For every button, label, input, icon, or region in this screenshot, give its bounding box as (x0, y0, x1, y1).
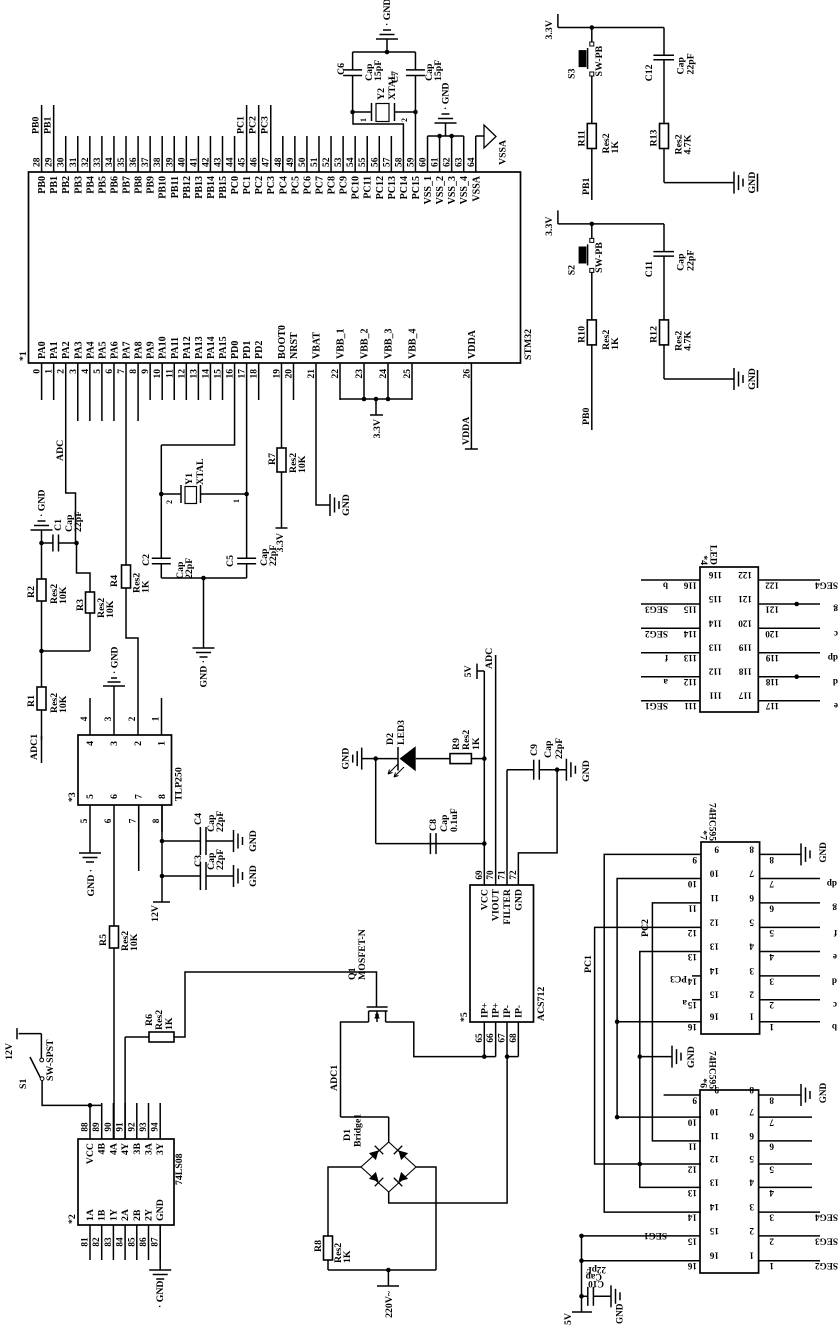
svg-text:2: 2 (127, 716, 137, 721)
svg-text:IP+: IP+ (491, 1002, 502, 1018)
wire TLP pin7 stub (138, 805, 140, 871)
svg-text:16: 16 (687, 1022, 697, 1032)
svg-text:5: 5 (79, 818, 89, 823)
ground at C4 (233, 840, 235, 842)
svg-text:PB3: PB3 (73, 176, 84, 194)
svg-text:118: 118 (765, 677, 779, 687)
svg-text:PC4: PC4 (278, 176, 289, 194)
svg-text:PC2: PC2 (254, 176, 265, 194)
svg-text:GND: GND (341, 494, 352, 516)
svg-text:VSS_1: VSS_1 (423, 176, 434, 204)
power port 3.3V at VBB (375, 399, 377, 415)
svg-text:49: 49 (286, 157, 296, 167)
svg-text:· GND: · GND (110, 647, 121, 675)
STM32 left pin 4 PA4 (89, 363, 91, 421)
svg-text:22pF: 22pF (686, 53, 697, 74)
svg-text:Y2: Y2 (376, 88, 387, 100)
ground at R13 (664, 182, 734, 184)
svg-text:1K: 1K (471, 737, 482, 750)
display top pin 113 net f (641, 652, 700, 654)
svg-text:29: 29 (45, 157, 55, 167)
svg-text:11: 11 (688, 903, 697, 913)
svg-text:72: 72 (508, 870, 518, 880)
svg-text:7: 7 (117, 369, 127, 374)
svg-text:VBB_4: VBB_4 (408, 328, 419, 359)
svg-text:PB15: PB15 (218, 176, 229, 199)
svg-text:61: 61 (431, 157, 441, 167)
wire ACS IP- tie (507, 1056, 518, 1058)
svg-text:R4: R4 (109, 575, 120, 587)
svg-text:IP-: IP- (502, 1005, 513, 1018)
svg-text:6: 6 (105, 369, 115, 374)
svg-text:R5: R5 (98, 934, 109, 946)
svg-text:14: 14 (687, 976, 697, 986)
U7 bottom pin 3 wire (760, 975, 820, 977)
LED branch: ground (362, 758, 376, 760)
svg-text:VSSA: VSSA (471, 175, 482, 201)
svg-text:32: 32 (81, 157, 91, 167)
display bottom pin 118 net d (758, 676, 820, 678)
bus wire SEG1 row (581, 1236, 583, 1296)
ACS712 left pin 65 IP+ (483, 1022, 485, 1057)
svg-text:81: 81 (80, 1237, 90, 1247)
STM32 right pin 60 VSS_1 (427, 136, 429, 172)
TLP250 pin 8 (161, 805, 163, 832)
svg-text:PD1: PD1 (242, 341, 253, 359)
svg-text:4: 4 (85, 741, 96, 746)
svg-text:C8: C8 (428, 819, 439, 831)
svg-text:b: b (663, 581, 668, 591)
svg-text:42: 42 (201, 157, 211, 167)
svg-text:114: 114 (683, 629, 697, 639)
svg-text:C9: C9 (529, 744, 540, 756)
svg-text:PC15: PC15 (411, 176, 422, 199)
ground at 74LS08 pin87 (159, 1225, 161, 1270)
svg-text:VSS_2: VSS_2 (435, 176, 446, 204)
svg-text:5: 5 (93, 369, 103, 374)
bus wire row B (604, 854, 701, 1212)
svg-text:VIOUT: VIOUT (491, 889, 502, 922)
ground at bus row D (640, 1056, 672, 1058)
resistor R13 (663, 60, 665, 124)
crystal Y1 circuit (160, 563, 162, 578)
svg-text:PB11: PB11 (170, 176, 181, 198)
svg-text:2: 2 (133, 741, 144, 746)
svg-text:116: 116 (708, 570, 722, 580)
svg-text:3.3V: 3.3V (275, 533, 286, 552)
ground at Y2 (385, 50, 390, 55)
svg-text:14: 14 (687, 1213, 697, 1223)
svg-text:85: 85 (126, 1237, 136, 1247)
svg-text:220V~: 220V~ (384, 1290, 395, 1318)
U6 bottom pin 6 wire (759, 1140, 812, 1142)
svg-text:3: 3 (103, 716, 113, 721)
svg-text:6: 6 (749, 893, 754, 903)
U6 bottom pin 1 wire (759, 1260, 820, 1262)
IC U5 ACS712 body (470, 885, 534, 1022)
svg-text:PB12: PB12 (182, 176, 193, 199)
STM32 left pin 5 PA5 (101, 363, 103, 421)
svg-text:93: 93 (138, 1122, 148, 1132)
STM32 left pin 20 NRST (293, 363, 295, 400)
svg-text:22pF: 22pF (215, 849, 226, 870)
STM32 right pin 42 PB14 (209, 136, 211, 172)
svg-text:C12: C12 (644, 64, 655, 81)
svg-text:ADC: ADC (55, 440, 66, 461)
74LS08 left pin 84 2A (124, 1225, 126, 1260)
svg-text:121: 121 (738, 594, 752, 604)
net label PC2 (258, 105, 260, 136)
svg-text:GND: GND (155, 1199, 166, 1221)
STM32 left pin 8 PA8 (137, 363, 139, 421)
svg-text:PC11: PC11 (363, 176, 374, 199)
svg-text:33: 33 (93, 157, 103, 167)
74LS08 left pin 86 2Y (148, 1225, 150, 1260)
display top pin 112 net a (641, 676, 700, 678)
STM32 right pin 53 PC9 (342, 136, 344, 172)
svg-text:87: 87 (150, 1237, 160, 1247)
svg-text:S1: S1 (18, 1079, 29, 1089)
STM32 left pin 10 PA10 (161, 363, 163, 400)
TLP250 pin 4 (89, 698, 91, 735)
svg-text:*4: *4 (698, 555, 709, 565)
svg-text:1B: 1B (97, 1209, 108, 1221)
bus wire PC1 row (595, 927, 701, 1164)
svg-text:R2: R2 (26, 586, 37, 598)
svg-text:12: 12 (177, 369, 187, 379)
svg-text:IP-: IP- (513, 1005, 524, 1018)
STM32 left pin 6 PA6 (113, 363, 115, 421)
svg-text:PC2: PC2 (640, 919, 651, 937)
svg-text:91: 91 (115, 1122, 125, 1132)
svg-text:4A: 4A (108, 1143, 119, 1155)
STM32 right pin 48 PC4 (282, 136, 284, 172)
svg-text:TLP250: TLP250 (174, 767, 185, 801)
svg-text:84: 84 (115, 1237, 125, 1247)
svg-text:11: 11 (710, 1131, 719, 1141)
power port 3.3V S3 (557, 14, 559, 28)
svg-text:82: 82 (91, 1237, 101, 1247)
resistor R6 1K from 4Y to gate (124, 1037, 126, 1139)
svg-text:89: 89 (91, 1122, 101, 1132)
svg-text:8: 8 (157, 794, 168, 799)
svg-text:SEG1: SEG1 (644, 1231, 667, 1241)
svg-text:GND: GND (248, 865, 259, 887)
STM32 right pin 30 PB2 (65, 136, 67, 172)
svg-text:1: 1 (359, 118, 368, 122)
svg-text:11: 11 (688, 1141, 697, 1151)
svg-text:PA1: PA1 (49, 341, 60, 359)
bus wire row C (617, 879, 701, 1118)
switch blade S1 (30, 1057, 40, 1078)
svg-text:92: 92 (126, 1122, 136, 1132)
svg-text:PB1: PB1 (43, 116, 54, 134)
ACS712 left pin 68 IP- (517, 1022, 519, 1057)
STM32 left pin 13 PA13 (197, 363, 199, 400)
STM32 left pin 2 PA2 (65, 363, 67, 400)
svg-text:1K: 1K (164, 1017, 175, 1030)
svg-text:SW-PB: SW-PB (594, 45, 605, 76)
svg-text:3.3V: 3.3V (544, 217, 555, 236)
svg-text:44: 44 (226, 157, 236, 167)
STM32 left pin 25 VBB_4 (411, 363, 413, 400)
svg-text:12V: 12V (150, 905, 161, 922)
wire VBAT to ground (316, 400, 330, 505)
svg-text:PC8: PC8 (327, 176, 338, 194)
svg-text:10K: 10K (297, 455, 308, 473)
svg-text:PC0: PC0 (230, 176, 241, 194)
svg-text:3: 3 (109, 741, 120, 746)
net label PB0 (41, 105, 43, 136)
svg-text:10K: 10K (129, 933, 140, 951)
STM32 left pin 11 PA11 (173, 363, 175, 400)
U7 bottom pin 4 wire (760, 951, 820, 953)
svg-text:SEG4: SEG4 (815, 581, 838, 591)
svg-text:R7: R7 (267, 453, 278, 465)
svg-text:GND: GND (581, 760, 592, 782)
svg-text:GND: GND (747, 368, 758, 390)
ground at R12 (664, 378, 734, 380)
svg-text:122: 122 (738, 570, 752, 580)
svg-text:15: 15 (709, 1226, 719, 1236)
svg-text:4: 4 (81, 369, 91, 374)
svg-text:PB4: PB4 (85, 176, 96, 194)
svg-text:d: d (833, 677, 838, 687)
svg-text:Cap: Cap (543, 740, 554, 758)
svg-text:SEG2: SEG2 (645, 629, 668, 639)
svg-text:PC5: PC5 (290, 176, 301, 194)
svg-text:GND: GND (818, 1082, 828, 1103)
svg-text:36: 36 (129, 157, 139, 167)
svg-text:VCC: VCC (479, 889, 490, 910)
svg-text:PB1: PB1 (581, 177, 592, 195)
net label PC3 (270, 105, 272, 136)
svg-text:74LS08: 74LS08 (174, 1153, 185, 1185)
display bottom pin 119 net dp (758, 652, 820, 654)
capacitor C4 22pF (162, 840, 201, 842)
svg-text:24: 24 (379, 369, 389, 379)
IC U6 74HC595 body (700, 1090, 759, 1273)
STM32 right pin 37 PB9 (149, 136, 151, 172)
svg-text:1: 1 (769, 1261, 774, 1271)
STM32 left pin 26 VDDA (470, 363, 472, 400)
svg-text:BOOT0: BOOT0 (277, 325, 288, 359)
IC U2 74LS08 body (78, 1139, 174, 1225)
STM32 left pin 16 PD0 (234, 363, 236, 400)
resistor R7 10K on BOOT0 (281, 400, 283, 448)
svg-text:VBAT: VBAT (312, 332, 323, 359)
svg-text:113: 113 (683, 653, 697, 663)
svg-text:58: 58 (394, 157, 404, 167)
svg-text:VDDA: VDDA (461, 417, 472, 445)
STM32 left pin 14 PA14 (209, 363, 211, 400)
svg-text:8: 8 (769, 855, 774, 865)
svg-text:1: 1 (151, 716, 161, 721)
svg-text:111: 111 (709, 691, 722, 701)
STM32 right pin 45 PC1 (246, 136, 248, 172)
svg-text:5: 5 (749, 917, 754, 927)
svg-text:88: 88 (80, 1122, 90, 1132)
svg-text:15pF: 15pF (433, 60, 444, 81)
svg-text:PB9: PB9 (146, 176, 157, 194)
svg-text:3: 3 (749, 966, 754, 976)
74LS08 right pin 93 3A (148, 1103, 150, 1139)
diode bridge D1 Bridge1 (361, 1142, 416, 1192)
74LS08 left pin 82 1B (101, 1225, 103, 1260)
svg-text:PC9: PC9 (339, 176, 350, 194)
svg-text:4.7K: 4.7K (683, 331, 694, 351)
svg-text:16: 16 (226, 369, 236, 379)
STM32 right pin 43 PB15 (222, 136, 224, 172)
svg-text:PB14: PB14 (206, 176, 217, 199)
ACS712 left pin 67 IP- (506, 1022, 508, 1057)
U6 pin9 stub (664, 1094, 700, 1096)
wire bridge left corner to ACS712 (389, 1057, 507, 1203)
STM32 left pin 9 PA9 (149, 363, 151, 400)
STM32 right pin 52 PC8 (330, 136, 332, 172)
svg-text:115: 115 (683, 605, 697, 615)
STM32 right pin 40 PB12 (185, 136, 187, 172)
net label PC1 (246, 105, 248, 136)
svg-text:SEG2: SEG2 (815, 1261, 838, 1271)
svg-text:*3: *3 (67, 792, 78, 802)
svg-text:10: 10 (687, 1118, 697, 1128)
wire S1 to 74LS08 (42, 1081, 102, 1106)
svg-text:11: 11 (165, 369, 175, 378)
svg-text:C2: C2 (141, 554, 152, 566)
svg-text:1K: 1K (141, 580, 152, 593)
svg-text:2Y: 2Y (144, 1209, 155, 1221)
svg-text:57: 57 (382, 157, 392, 167)
svg-text:56: 56 (370, 157, 380, 167)
svg-text:62: 62 (443, 157, 453, 167)
svg-text:22: 22 (331, 369, 341, 379)
svg-text:PB2: PB2 (61, 176, 72, 194)
svg-text:3: 3 (69, 369, 79, 374)
svg-text:Y1: Y1 (184, 473, 195, 485)
svg-text:4: 4 (769, 1188, 774, 1198)
svg-text:VDDA: VDDA (467, 329, 478, 359)
svg-text:14: 14 (709, 1202, 719, 1212)
74LS08 left pin 85 2B (136, 1225, 138, 1260)
svg-text:115: 115 (708, 594, 722, 604)
svg-text:3B: 3B (132, 1143, 143, 1155)
74LS08 right pin 91 4Y (124, 1103, 126, 1139)
bus wire row D (640, 952, 701, 1188)
U7 bottom pin 1 wire (760, 1021, 820, 1023)
source 220V~ (387, 1270, 389, 1286)
svg-text:3: 3 (749, 1202, 754, 1212)
crystal Y2 circuit (414, 112, 416, 136)
svg-text:PD0: PD0 (230, 341, 241, 359)
svg-text:SEG3: SEG3 (645, 605, 668, 615)
svg-text:12V: 12V (4, 1043, 15, 1060)
svg-text:PC2: PC2 (248, 116, 259, 134)
resistor R10 (591, 272, 593, 320)
svg-text:C4: C4 (193, 813, 204, 825)
svg-text:22pF: 22pF (586, 1265, 606, 1275)
svg-text:65: 65 (474, 1033, 484, 1043)
svg-text:PA4: PA4 (85, 341, 96, 359)
STM32 right pin 36 PB8 (137, 136, 139, 172)
resistor R3 10K (77, 543, 91, 592)
svg-text:118: 118 (738, 667, 752, 677)
svg-text:· GND: · GND (382, 0, 393, 26)
capacitor C3 22pF (162, 875, 201, 877)
display top pin 115 net SEG3 (641, 603, 700, 605)
svg-text:119: 119 (765, 653, 779, 663)
STM32 right pin 32 PB4 (89, 136, 91, 172)
svg-text:53: 53 (334, 157, 344, 167)
svg-text:NRST: NRST (289, 332, 300, 359)
svg-text:47: 47 (262, 157, 272, 167)
svg-text:9: 9 (714, 1085, 719, 1095)
display bottom pin 122 net SEG4 (758, 579, 820, 581)
STM32 left pin 23 VBB_2 (363, 363, 365, 400)
svg-text:PB0: PB0 (37, 176, 48, 194)
74LS08 right pin 92 3B (136, 1103, 138, 1139)
svg-text:LED: LED (708, 545, 719, 565)
svg-text:0.1uF: 0.1uF (449, 808, 460, 832)
svg-text:22pF: 22pF (554, 738, 565, 759)
svg-text:g: g (832, 903, 837, 913)
svg-text:2: 2 (749, 990, 754, 1000)
svg-text:*5: *5 (459, 1012, 470, 1022)
svg-text:5V: 5V (563, 1313, 574, 1325)
switch S2 SW-PB (591, 224, 593, 239)
svg-text:R8: R8 (313, 1240, 324, 1252)
svg-text:94: 94 (150, 1122, 160, 1132)
74LS08 left pin 87 GND (159, 1225, 161, 1260)
resistor R11 (591, 76, 593, 124)
svg-text:PC3: PC3 (266, 176, 277, 194)
svg-text:122: 122 (765, 581, 779, 591)
TLP250 pin 3 (113, 698, 115, 735)
svg-text:· GND: · GND (37, 490, 48, 518)
svg-text:16: 16 (709, 1251, 719, 1261)
STM32 left pin 21 VBAT (315, 363, 317, 400)
ground at VBAT (329, 504, 331, 506)
STM32 right pin 59 PC15 (414, 136, 416, 172)
svg-text:5: 5 (749, 1154, 754, 1164)
wire 5V rail from ACS712 VCC (483, 671, 485, 885)
display bottom pin 120 net c (758, 627, 820, 629)
svg-text:3.3V: 3.3V (544, 20, 555, 39)
svg-text:113: 113 (708, 643, 722, 653)
svg-text:6: 6 (769, 903, 774, 913)
svg-text:14: 14 (201, 369, 211, 379)
svg-text:0: 0 (33, 369, 43, 374)
wire FILTER to C9 (506, 770, 508, 885)
svg-text:2: 2 (57, 369, 67, 374)
svg-text:45: 45 (238, 157, 248, 167)
svg-text:11: 11 (710, 893, 719, 903)
svg-text:GND ·: GND · (86, 869, 97, 897)
resistor R1 10K (41, 651, 43, 687)
svg-text:3.3V: 3.3V (372, 419, 383, 438)
svg-text:50: 50 (298, 157, 308, 167)
svg-text:35: 35 (117, 157, 127, 167)
svg-text:g: g (833, 605, 838, 615)
svg-text:1K: 1K (342, 1250, 353, 1263)
svg-text:*2: *2 (67, 1214, 78, 1224)
STM32 left pin 12 PA12 (185, 363, 187, 400)
svg-text:e: e (833, 952, 837, 962)
U6 bottom pin 2 wire (759, 1235, 820, 1237)
svg-text:8: 8 (749, 844, 754, 854)
svg-text:PA13: PA13 (194, 336, 205, 359)
svg-text:a: a (663, 677, 668, 687)
